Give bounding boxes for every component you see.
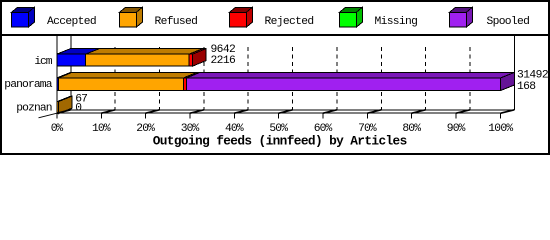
bar panorama	[57, 72, 514, 90]
gridline back 100% solid / right frame	[513, 36, 515, 110]
poznan orange side face	[58, 96, 72, 114]
gridline back 60% dashed	[336, 47, 338, 110]
tick 20%	[145, 113, 147, 118]
front axis line	[57, 112, 501, 114]
svg-text:90%: 90%	[447, 123, 466, 135]
tick 30%	[189, 113, 191, 118]
icm orange top face	[86, 49, 203, 55]
svg-text:100%: 100%	[488, 123, 513, 135]
svg-text:0: 0	[75, 102, 82, 114]
poznan orange top face	[57, 96, 72, 102]
tick 60%	[322, 113, 324, 118]
axis origin depth diagonal (to lower-left)	[39, 113, 57, 118]
tick 70%	[366, 113, 368, 118]
legend cube Accepted	[12, 7, 35, 27]
svg-text:poznan: poznan	[16, 103, 52, 115]
svg-text:Refused: Refused	[155, 16, 198, 28]
tick 50%	[278, 113, 280, 118]
svg-text:2216: 2216	[211, 55, 237, 67]
svg-text:Rejected: Rejected	[265, 16, 315, 28]
panorama red front face (Rejected)	[184, 78, 187, 91]
svg-text:10%: 10%	[92, 123, 111, 135]
icm red side face	[193, 49, 207, 67]
legend cube Rejected	[230, 7, 253, 27]
icm red front face (Rejected)	[189, 54, 192, 66]
svg-text:0%: 0%	[51, 123, 64, 135]
bar icm	[57, 49, 206, 67]
icm blue top face	[57, 49, 99, 55]
poznan orange front face (Refused)	[57, 102, 58, 114]
legend cube Missing	[340, 7, 363, 27]
panorama orange front face (Refused)	[58, 78, 183, 91]
left axis vertical line	[56, 36, 58, 119]
panorama orange top face	[58, 72, 197, 78]
tick 40%	[233, 113, 235, 118]
panorama blue front face (Accepted)	[57, 78, 59, 91]
svg-text:31492: 31492	[517, 69, 549, 81]
gridline back 40% dashed	[247, 47, 249, 110]
legend separator line	[0, 34, 550, 36]
gridline back 30% dashed	[203, 47, 205, 110]
gridline back 10% dashed	[114, 47, 116, 110]
gridline back 90% dashed	[469, 47, 471, 110]
tick 10%	[100, 113, 102, 118]
panorama purple side face	[501, 72, 515, 90]
svg-text:icm: icm	[34, 56, 52, 68]
legend cube Refused	[120, 7, 143, 27]
icm red top face	[189, 49, 206, 55]
tick 80%	[411, 113, 413, 118]
x axis percent labels	[51, 123, 514, 135]
tick 90%	[455, 113, 457, 118]
tick 100%	[500, 113, 502, 118]
legend cube Spooled	[450, 7, 473, 27]
gridline back 0% solid	[70, 36, 72, 110]
panorama blue top face	[57, 72, 72, 78]
icm orange front face (Refused)	[86, 54, 190, 66]
outer border	[1, 1, 549, 154]
svg-text:Spooled: Spooled	[487, 16, 530, 28]
bar poznan	[57, 96, 72, 114]
panorama purple top face	[186, 72, 514, 78]
gridline back 20% dashed	[159, 47, 161, 110]
panorama purple front face (Spooled)	[186, 78, 500, 91]
svg-text:Accepted: Accepted	[47, 16, 97, 28]
tick 0%	[56, 113, 58, 118]
svg-text:168: 168	[517, 81, 536, 93]
svg-text:Outgoing feeds (innfeed) by Ar: Outgoing feeds (innfeed) by Articles	[153, 133, 408, 148]
gridline back 50% dashed	[292, 47, 294, 110]
axis ticks	[57, 110, 514, 119]
gridline back 80% dashed	[425, 47, 427, 110]
panorama red top face	[184, 72, 201, 78]
svg-text:Missing: Missing	[375, 16, 418, 28]
icm blue front face (Accepted)	[57, 54, 86, 66]
gridline back 70% dashed	[380, 47, 382, 110]
svg-text:panorama: panorama	[4, 79, 52, 91]
back axis line	[71, 109, 515, 111]
